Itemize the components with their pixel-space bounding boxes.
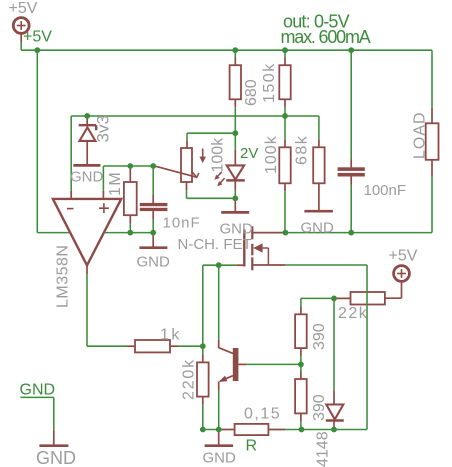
svg-text:GND: GND (70, 169, 104, 186)
svg-text:+5V: +5V (9, 0, 38, 17)
svg-text:0,15: 0,15 (244, 406, 281, 423)
svg-text:N-CH. FET: N-CH. FET (178, 236, 252, 253)
svg-text:+5V: +5V (389, 248, 418, 265)
svg-text:390: 390 (311, 394, 328, 421)
svg-text:GND: GND (20, 382, 56, 399)
svg-text:1M: 1M (107, 171, 124, 196)
svg-text:3v3: 3v3 (94, 115, 113, 142)
svg-text:max. 600mA: max. 600mA (281, 27, 371, 47)
svg-text:2V: 2V (240, 145, 258, 162)
svg-text:GND: GND (301, 220, 335, 237)
svg-text:GND: GND (36, 448, 76, 467)
svg-text:GND: GND (203, 450, 237, 467)
svg-text:1k: 1k (160, 327, 182, 344)
svg-text:220k: 220k (181, 358, 198, 400)
svg-text:22k: 22k (338, 305, 368, 322)
svg-text:68k: 68k (294, 135, 311, 165)
svg-text:R: R (246, 438, 258, 455)
svg-text:GND: GND (220, 221, 254, 238)
svg-text:100k: 100k (263, 135, 280, 174)
svg-text:GND: GND (137, 254, 171, 271)
svg-text:4148: 4148 (315, 431, 332, 467)
svg-text:LOAD: LOAD (412, 111, 429, 159)
svg-text:150k: 150k (261, 62, 278, 103)
svg-text:100k: 100k (210, 137, 227, 173)
svg-text:+5V: +5V (23, 29, 52, 46)
svg-text:LM358N: LM358N (55, 245, 72, 308)
svg-text:100nF: 100nF (364, 182, 407, 199)
svg-text:680: 680 (243, 79, 260, 106)
svg-text:390: 390 (311, 323, 328, 350)
svg-text:10nF: 10nF (163, 215, 201, 232)
